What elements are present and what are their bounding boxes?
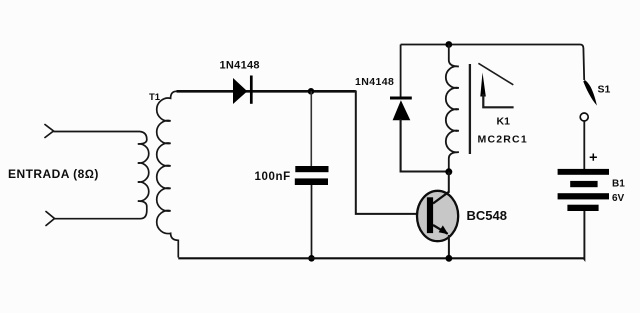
wire: flyback diode bottom lead xyxy=(401,119,449,172)
node: capacitor to bottom rail xyxy=(308,255,315,262)
node: relay top rail junction xyxy=(445,41,452,48)
svg-text:1N4148: 1N4148 xyxy=(220,60,260,72)
diode D1 1N4148 triangle xyxy=(233,78,247,104)
transistor Q1 base bar xyxy=(427,197,433,233)
battery B1 plate 1 long xyxy=(558,169,609,175)
node: emitter to bottom rail xyxy=(446,255,453,262)
svg-text:ENTRADA (8Ω): ENTRADA (8Ω) xyxy=(8,167,99,181)
svg-text:100nF: 100nF xyxy=(255,171,291,183)
svg-text:MC2RC1: MC2RC1 xyxy=(478,134,528,146)
input terminal top (arrow) xyxy=(45,125,54,138)
wire: down from top rail to transistor base xyxy=(356,91,418,214)
wire: collector lead xyxy=(448,172,450,192)
capacitor C1 top plate xyxy=(295,166,328,172)
relay K1 coil xyxy=(446,45,459,172)
label + xyxy=(590,154,597,161)
capacitor C1 bottom plate xyxy=(295,178,328,185)
battery B1 plate 3 long xyxy=(558,193,609,199)
transformer T1 primary coil xyxy=(138,140,149,207)
diode D2 triangle (pointing up) xyxy=(393,100,411,120)
svg-text:BC548: BC548 xyxy=(467,208,507,223)
svg-text:S1: S1 xyxy=(598,84,611,96)
battery B1 plate 4 short xyxy=(567,205,598,211)
wire: bottom rail xyxy=(178,257,583,259)
svg-text:K1: K1 xyxy=(497,116,511,128)
wire: top rail from secondary to corner xyxy=(177,90,356,93)
node: coil / diode / collector junction xyxy=(445,168,452,175)
svg-text:B1: B1 xyxy=(612,179,625,190)
relay core bar xyxy=(469,64,471,154)
transformer T1 secondary coil xyxy=(157,91,179,257)
relay contact blade (diagonal) xyxy=(478,63,513,85)
wire: switch to battery xyxy=(583,122,585,170)
wire: flyback diode top lead xyxy=(400,45,402,97)
switch S1 blade xyxy=(583,80,597,106)
transistor Q1 emitter stroke xyxy=(433,225,448,234)
battery B1 plate 2 short xyxy=(570,181,597,187)
wire: bottom input to transformer primary xyxy=(55,207,147,219)
wire: capacitor top lead xyxy=(310,91,312,166)
diode D2 1N4148 cathode bar xyxy=(390,97,412,100)
relay contact arrow xyxy=(480,73,486,97)
svg-text:6V: 6V xyxy=(612,193,625,204)
wire: top input to transformer primary xyxy=(54,132,147,140)
wire: battery to bottom rail xyxy=(583,211,586,259)
wire: relay top rail xyxy=(401,45,585,81)
transistor Q1 body xyxy=(417,191,458,241)
switch S1 contact circle xyxy=(580,113,588,121)
node: junction top rail / capacitor xyxy=(308,88,315,95)
transistor Q1 collector stroke xyxy=(433,192,449,204)
diode D1 cathode bar xyxy=(250,76,253,104)
input terminal bottom (arrow) xyxy=(46,212,55,226)
transistor Q1 emitter arrowhead xyxy=(439,225,449,234)
svg-text:1N4148: 1N4148 xyxy=(355,76,394,88)
wire: emitter lead xyxy=(448,235,450,257)
wire: capacitor bottom lead xyxy=(311,185,313,258)
